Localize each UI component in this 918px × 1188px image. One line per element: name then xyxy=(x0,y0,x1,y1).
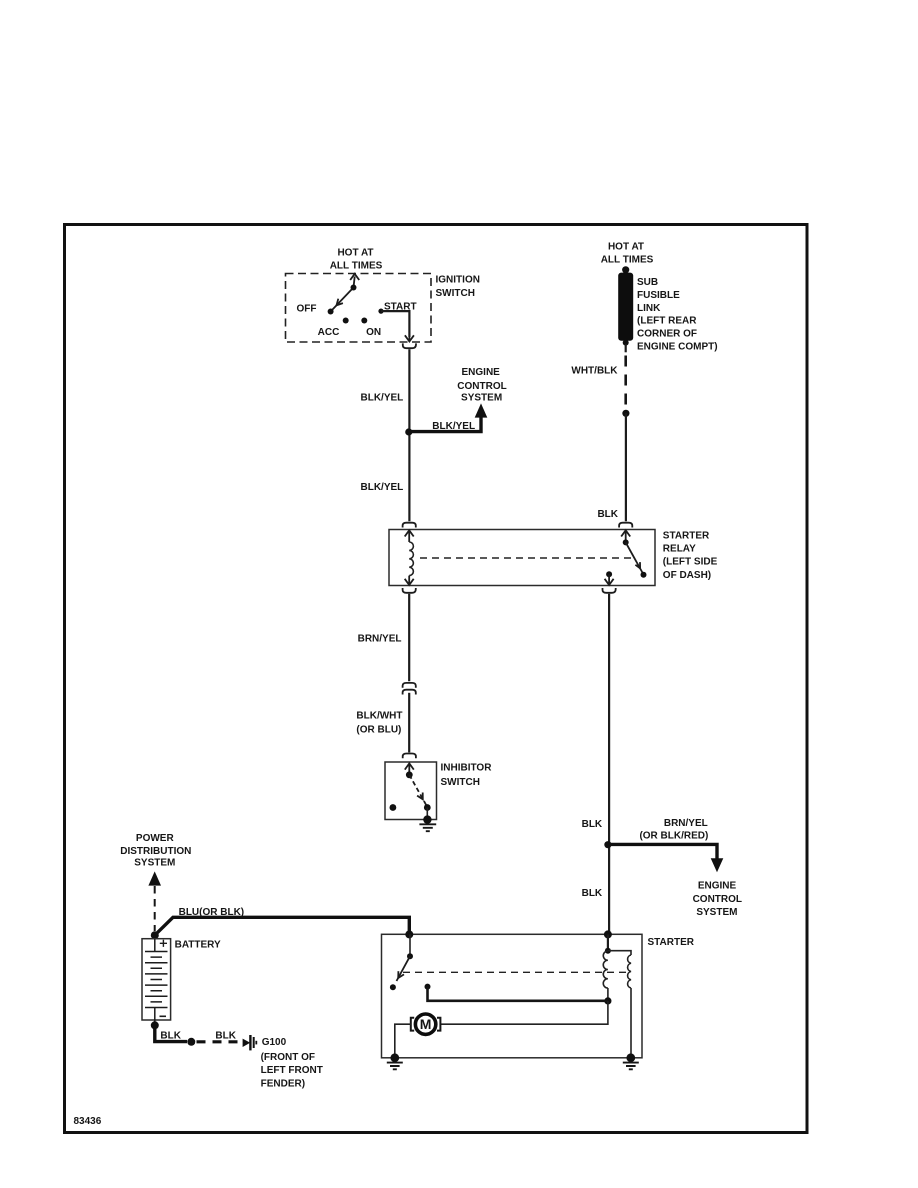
svg-text:ON: ON xyxy=(366,327,381,338)
node: HOT AT ALL TIMES (fusible link feed) xyxy=(601,242,654,266)
svg-text:CONTROL: CONTROL xyxy=(457,381,506,392)
node: HOT AT ALL TIMES (ignition feed) xyxy=(330,248,383,272)
svg-text:SUB: SUB xyxy=(637,277,658,288)
solenoid hold-in coil xyxy=(628,955,631,988)
sub fusible link xyxy=(618,266,633,345)
connector below relay pin 2 xyxy=(403,588,416,593)
inhibitor switch lever xyxy=(406,771,431,811)
ignition contact OFF xyxy=(328,309,334,315)
svg-text:ALL TIMES: ALL TIMES xyxy=(330,261,383,272)
relay pin 3 arrow xyxy=(621,530,630,542)
svg-text:CORNER OF: CORNER OF xyxy=(637,329,697,340)
svg-text:FUSIBLE: FUSIBLE xyxy=(637,290,680,301)
svg-text:LINK: LINK xyxy=(637,303,661,314)
relay switch lever xyxy=(623,539,647,577)
ignition contact START xyxy=(378,309,383,314)
wire pull-in coil to motor node xyxy=(607,988,609,1001)
svg-text:BLK: BLK xyxy=(582,888,603,899)
svg-text:OFF: OFF xyxy=(297,304,317,315)
svg-text:OF DASH): OF DASH) xyxy=(663,570,711,581)
svg-text:BLK/WHT: BLK/WHT xyxy=(356,711,402,722)
wire START output xyxy=(381,311,409,337)
arrow to ENGINE CONTROL SYSTEM (top) xyxy=(475,403,488,417)
starter internal dashed link xyxy=(403,971,627,973)
connector above starter relay pin 1 xyxy=(403,523,416,528)
node: solenoid feed junction xyxy=(604,930,612,938)
svg-text:BLK: BLK xyxy=(597,509,618,520)
node: battery negative xyxy=(151,1021,159,1029)
wire from switch contact plate xyxy=(425,984,431,990)
dashed wire BLK to G100 xyxy=(197,1040,242,1043)
svg-text:RELAY: RELAY xyxy=(663,544,696,555)
svg-text:(OR BLK/RED): (OR BLK/RED) xyxy=(639,831,708,842)
svg-text:ACC: ACC xyxy=(318,327,340,338)
svg-text:STARTER: STARTER xyxy=(663,531,710,542)
ignition contact ON xyxy=(361,318,367,324)
svg-text:M: M xyxy=(420,1016,432,1032)
svg-text:BLK: BLK xyxy=(160,1030,181,1041)
node: BLK splice xyxy=(604,841,611,848)
svg-text:G100: G100 xyxy=(262,1037,287,1048)
svg-text:(LEFT REAR: (LEFT REAR xyxy=(637,316,697,327)
inhibitor switch box xyxy=(385,762,437,820)
arrow to POWER DISTRIBUTION SYSTEM xyxy=(148,871,161,885)
arrow out of ignition box xyxy=(405,311,414,341)
svg-text:ENGINE: ENGINE xyxy=(462,367,501,378)
svg-text:WHT/BLK: WHT/BLK xyxy=(571,365,618,376)
svg-text:SYSTEM: SYSTEM xyxy=(696,907,737,918)
ignition contact ACC xyxy=(343,318,349,324)
svg-text:ENGINE COMPT): ENGINE COMPT) xyxy=(637,342,718,353)
wire BLK from battery xyxy=(155,1025,187,1041)
svg-text:DISTRIBUTION: DISTRIBUTION xyxy=(120,846,191,857)
svg-text:FENDER): FENDER) xyxy=(261,1079,305,1090)
inhibitor unused contact xyxy=(390,804,397,811)
label SUB FUSIBLE LINK xyxy=(637,277,718,353)
wire motor to ground xyxy=(395,1024,411,1058)
arrow to ENGINE CONTROL SYSTEM (bottom) xyxy=(711,858,724,872)
svg-text:SWITCH: SWITCH xyxy=(436,288,475,299)
wire BLK from relay to starter xyxy=(608,594,610,935)
wire BLK/WHT (OR BLU) xyxy=(408,693,410,753)
branch to hold-in coil xyxy=(608,951,631,955)
svg-text:ALL TIMES: ALL TIMES xyxy=(601,255,654,266)
svg-text:BLK: BLK xyxy=(215,1030,236,1041)
wire branch to engine control system (bottom) xyxy=(608,844,717,858)
svg-text:HOT AT: HOT AT xyxy=(337,248,373,259)
svg-text:(OR BLU): (OR BLU) xyxy=(356,725,401,736)
svg-text:BATTERY: BATTERY xyxy=(175,940,221,951)
starter contact switch xyxy=(390,934,413,990)
wire to ground xyxy=(426,808,428,820)
svg-text:LEFT FRONT: LEFT FRONT xyxy=(261,1065,323,1076)
svg-text:SYSTEM: SYSTEM xyxy=(134,858,175,869)
svg-text:BRN/YEL: BRN/YEL xyxy=(664,818,708,829)
label G100 xyxy=(261,1037,323,1090)
svg-text:IGNITION: IGNITION xyxy=(436,274,480,285)
relay coil xyxy=(409,542,413,576)
svg-text:INHIBITOR: INHIBITOR xyxy=(441,763,493,774)
wire into solenoid xyxy=(607,934,609,951)
wire BRN/YEL xyxy=(408,594,410,681)
svg-text:83436: 83436 xyxy=(74,1116,102,1127)
node: battery positive xyxy=(151,931,159,939)
page frame xyxy=(65,225,808,1133)
node: starter B+ junction xyxy=(405,930,413,938)
relay internal dashed link xyxy=(420,557,633,559)
ground (inhibitor switch) xyxy=(419,815,436,831)
svg-text:BLK/YEL: BLK/YEL xyxy=(361,482,404,493)
wire WHT/BLK dashed xyxy=(624,356,627,411)
ground (solenoid) xyxy=(623,1053,639,1069)
label STARTER RELAY xyxy=(663,531,718,581)
node: BLK/YEL splice xyxy=(405,428,412,435)
wire hold-in coil to ground xyxy=(630,988,632,1058)
ground (starter motor) xyxy=(387,1053,403,1069)
svg-text:CONTROL: CONTROL xyxy=(693,894,742,905)
wire branch to engine control system xyxy=(409,417,481,432)
svg-text:BLU(OR BLK): BLU(OR BLK) xyxy=(179,907,245,918)
relay pin 2 arrow xyxy=(405,576,414,585)
wire to motor xyxy=(441,1001,608,1024)
svg-text:BLK: BLK xyxy=(582,819,603,830)
node: WHT/BLK splice xyxy=(622,410,629,417)
svg-text:SYSTEM: SYSTEM xyxy=(461,393,502,404)
svg-text:ENGINE: ENGINE xyxy=(698,881,737,892)
relay pin 1 arrow xyxy=(405,530,414,542)
connector above starter relay pin 3 xyxy=(619,523,632,528)
connector below relay pin 4 xyxy=(603,588,616,593)
svg-text:(FRONT OF: (FRONT OF xyxy=(261,1052,315,1063)
svg-text:BLK/YEL: BLK/YEL xyxy=(432,421,475,432)
node: BLK splice to ground xyxy=(187,1038,195,1046)
starter relay box xyxy=(389,530,655,586)
relay pin 4 (output) xyxy=(605,571,614,585)
svg-text:HOT AT: HOT AT xyxy=(608,242,644,253)
starter box xyxy=(382,934,643,1058)
svg-text:STARTER: STARTER xyxy=(648,937,695,948)
svg-text:POWER: POWER xyxy=(136,833,175,844)
svg-text:SWITCH: SWITCH xyxy=(441,777,480,788)
svg-text:(LEFT SIDE: (LEFT SIDE xyxy=(663,557,718,568)
ignition switch lever xyxy=(331,274,360,312)
svg-text:BRN/YEL: BRN/YEL xyxy=(358,634,402,645)
node: motor feed xyxy=(604,997,611,1004)
solenoid pull-in coil xyxy=(603,951,608,988)
dashed wire to battery xyxy=(154,886,156,931)
inline connector xyxy=(403,683,416,695)
wire down to relay xyxy=(625,413,627,521)
ignition switch box xyxy=(286,274,432,343)
connector above inhibitor switch xyxy=(403,754,416,759)
connector below ignition switch xyxy=(403,343,416,348)
wire BLU(OR BLK) xyxy=(155,917,409,935)
wire below fusible link xyxy=(625,344,627,352)
inhibitor pin arrow xyxy=(405,763,414,774)
label IGNITION SWITCH xyxy=(436,274,480,299)
wire BLK/YEL upper xyxy=(408,349,410,521)
motor M xyxy=(411,1014,441,1034)
label POWER DISTRIBUTION SYSTEM xyxy=(120,833,191,869)
battery xyxy=(142,939,171,1026)
svg-text:BLK/YEL: BLK/YEL xyxy=(361,393,404,404)
ground G100 xyxy=(243,1035,257,1050)
label INHIBITOR SWITCH xyxy=(441,763,493,788)
